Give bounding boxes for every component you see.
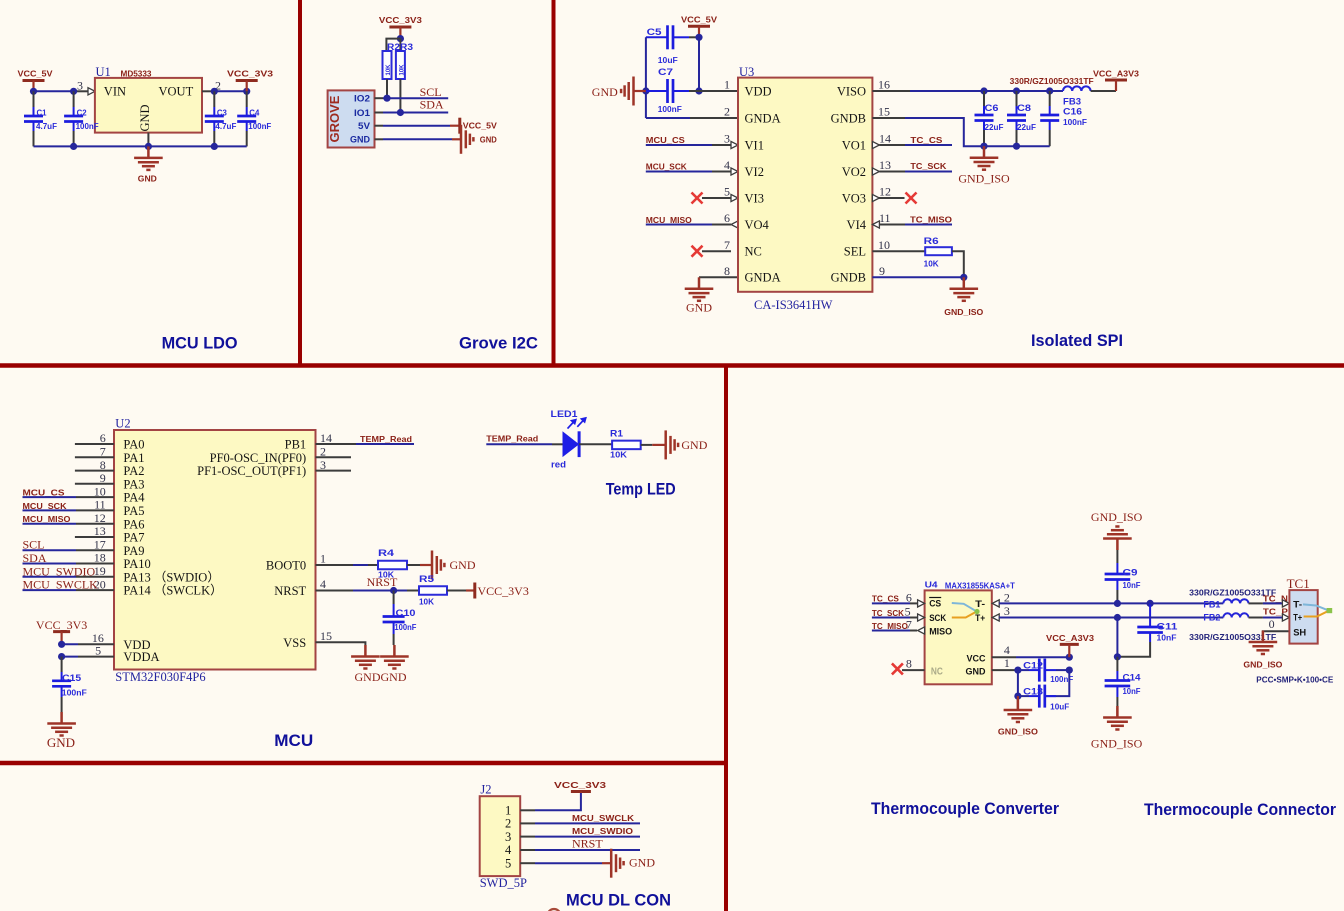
svg-text:MCU DL CON: MCU DL CON	[566, 892, 671, 910]
svg-text:100nF: 100nF	[394, 623, 416, 632]
svg-text:Thermocouple Converter: Thermocouple Converter	[871, 800, 1060, 818]
junction	[1046, 87, 1053, 94]
wire stub	[316, 456, 352, 458]
svg-text:GNDB: GNDB	[831, 111, 866, 125]
capacitor C10	[383, 591, 417, 646]
wire pin1 to VCC_3V3	[520, 809, 535, 811]
svg-text:10K: 10K	[398, 64, 405, 75]
svg-text:10uF: 10uF	[658, 56, 678, 65]
junction	[390, 587, 397, 594]
svg-text:GNDB: GNDB	[831, 271, 866, 285]
svg-text:TC_CS: TC_CS	[872, 595, 900, 604]
svg-text:PF1-OSC_OUT(PF1): PF1-OSC_OUT(PF1)	[197, 464, 306, 478]
svg-text:VDDA: VDDA	[123, 650, 159, 664]
svg-text:5: 5	[724, 185, 730, 199]
pin 3 arrow	[88, 88, 95, 95]
wire T+ to FB2	[1117, 617, 1223, 619]
wire VO2 pin 13 TC_SCK	[872, 162, 952, 175]
svg-text:C16: C16	[1063, 107, 1082, 118]
capacitor C2	[64, 91, 99, 146]
svg-text:IO2: IO2	[354, 94, 370, 105]
ferrite bead FB1	[1223, 599, 1263, 603]
pin 2 arrow T-	[992, 600, 1150, 607]
svg-text:VI1: VI1	[745, 138, 764, 152]
junction	[1014, 693, 1021, 700]
svg-text:FB1: FB1	[1203, 600, 1221, 611]
wire R3 to IO1	[399, 79, 401, 113]
wire	[23, 563, 77, 565]
svg-text:GND_ISO: GND_ISO	[1091, 510, 1143, 524]
wire R6 to GND_ISO	[952, 251, 964, 277]
svg-text:10K: 10K	[610, 451, 627, 460]
svg-text:STM32F030F4P6: STM32F030F4P6	[115, 670, 205, 684]
wire LED to R1	[579, 443, 612, 445]
svg-text:7: 7	[724, 238, 730, 252]
ground GND_ISO above C9	[1091, 510, 1143, 563]
net label TC_P	[1263, 607, 1290, 621]
svg-text:VCC_5V: VCC_5V	[463, 121, 498, 130]
wire IO2 to SCL	[375, 97, 384, 99]
svg-text:9: 9	[879, 264, 885, 278]
svg-text:MCU_SCK: MCU_SCK	[646, 163, 687, 172]
svg-text:LED1: LED1	[551, 409, 579, 420]
ferrite bead FB3	[1063, 86, 1116, 91]
svg-text:13: 13	[879, 158, 891, 172]
capacitor C13	[1018, 685, 1069, 712]
junction	[1066, 654, 1073, 661]
svg-text:100nF: 100nF	[76, 122, 99, 131]
svg-text:PA10: PA10	[123, 557, 150, 571]
ground GND below C15	[47, 712, 76, 750]
junction	[211, 88, 218, 95]
svg-text:100nF: 100nF	[1063, 118, 1087, 127]
svg-text:TEMP_Read: TEMP_Read	[360, 435, 412, 444]
wire pin5 GND	[520, 862, 535, 864]
svg-text:PA4: PA4	[123, 491, 145, 505]
capacitor C16	[1040, 91, 1087, 146]
section divider horizontal below top sections	[0, 363, 1344, 368]
capacitor C3	[205, 91, 237, 146]
svg-text:GND_ISO: GND_ISO	[998, 727, 1038, 736]
svg-text:C1: C1	[37, 109, 48, 118]
svg-text:10: 10	[878, 238, 890, 252]
svg-text:IO1: IO1	[354, 108, 371, 119]
svg-text:MAX31855KASA+T: MAX31855KASA+T	[945, 581, 1015, 590]
junction	[642, 87, 649, 94]
svg-text:MD5333: MD5333	[121, 69, 153, 78]
wire GNDB pin 9	[872, 276, 963, 278]
junction	[397, 35, 404, 42]
regulator U1	[95, 78, 202, 133]
svg-text:15: 15	[320, 629, 332, 643]
svg-text:PCC•SMP•K•100•CE: PCC•SMP•K•100•CE	[1256, 675, 1334, 684]
microcontroller U2	[114, 430, 316, 670]
capacitor C12	[1018, 659, 1073, 685]
svg-text:TC_MISO: TC_MISO	[872, 622, 908, 631]
capacitor C8	[1007, 91, 1036, 146]
wire GNDB pin 15 to ground rail	[872, 117, 905, 119]
svg-text:GNDA: GNDA	[745, 111, 781, 125]
junction	[1013, 87, 1020, 94]
connector TC1	[1289, 590, 1317, 644]
section divider horizontal between MCU and MCU DL CON	[0, 761, 726, 766]
wire NRST to R5	[316, 590, 354, 592]
svg-text:PA7: PA7	[123, 531, 144, 545]
wire pin3 MCU_SWDIO	[520, 836, 535, 838]
svg-text:TC1: TC1	[1287, 576, 1310, 591]
ferrite bead FB2	[1223, 613, 1263, 617]
svg-text:14: 14	[879, 132, 891, 146]
wire BOOT0 to R4	[316, 564, 354, 566]
svg-text:VO3: VO3	[842, 191, 866, 205]
svg-text:15: 15	[878, 105, 890, 119]
ground GND sideways left	[592, 77, 646, 106]
svg-text:C12: C12	[1023, 660, 1043, 671]
svg-text:16: 16	[878, 78, 890, 92]
resistor R2	[383, 51, 393, 79]
svg-text:Temp LED: Temp LED	[606, 481, 676, 499]
wire T- to FB1	[1150, 602, 1223, 604]
junction	[960, 274, 967, 281]
junction	[30, 88, 37, 95]
svg-text:BOOT0: BOOT0	[266, 559, 306, 573]
wire stub	[75, 443, 114, 445]
pin 3 arrow T+	[992, 614, 1117, 621]
wire R4 to GND	[407, 564, 420, 566]
power flag VCC_5V sideways	[460, 118, 498, 134]
wire pin4 NRST	[520, 849, 535, 851]
svg-text:NC: NC	[745, 245, 762, 259]
svg-text:10nF: 10nF	[1123, 687, 1141, 696]
svg-text:PA14 （SWCLK）: PA14 （SWCLK）	[123, 584, 222, 598]
power flag VCC_5V	[681, 15, 718, 37]
svg-text:FB2: FB2	[1203, 613, 1220, 624]
svg-text:GND: GND	[47, 735, 75, 750]
junction	[1147, 600, 1154, 607]
svg-text:C7: C7	[658, 67, 673, 78]
svg-text:VDD: VDD	[745, 84, 772, 98]
svg-text:Isolated SPI: Isolated SPI	[1031, 332, 1123, 350]
ground GND_ISO below C14	[1091, 706, 1143, 751]
wire R2 to IO2	[386, 79, 388, 98]
thermocouple glyph TC1	[1303, 604, 1332, 616]
net label TC_SCK	[872, 609, 925, 621]
wire right rail down	[1045, 670, 1070, 696]
svg-text:VCC_5V: VCC_5V	[681, 15, 718, 24]
svg-text:GND_ISO: GND_ISO	[1243, 661, 1282, 670]
wire to R2	[386, 39, 400, 51]
wire stub	[75, 536, 114, 538]
svg-text:1: 1	[1004, 656, 1010, 670]
svg-text:10K: 10K	[419, 598, 434, 607]
ground GND sideways	[461, 125, 497, 154]
svg-text:0: 0	[1269, 617, 1275, 631]
power flag VCC_3V3 sideways	[475, 583, 529, 599]
svg-text:J2: J2	[480, 783, 491, 797]
svg-text:MISO: MISO	[929, 627, 952, 638]
ground GND sideways	[611, 849, 655, 878]
svg-text:4.7uF: 4.7uF	[215, 122, 236, 131]
power flag VCC_A3V3	[1093, 70, 1140, 92]
svg-text:PB1: PB1	[285, 438, 307, 452]
svg-text:VO4: VO4	[745, 218, 770, 232]
svg-text:VCC: VCC	[967, 653, 986, 664]
wire T+ down	[1116, 618, 1118, 657]
svg-text:C11: C11	[1157, 621, 1179, 632]
svg-text:8: 8	[906, 657, 912, 671]
wire ground rail	[34, 145, 247, 147]
capacitor C9	[1105, 563, 1141, 603]
no-connect X pin 12	[872, 193, 916, 204]
svg-text:VOUT: VOUT	[159, 85, 194, 99]
svg-text:C6: C6	[985, 103, 999, 114]
svg-text:GND: GND	[592, 85, 618, 99]
junction	[980, 143, 987, 150]
svg-text:10uF: 10uF	[1050, 702, 1069, 711]
net label TC_N	[1263, 594, 1290, 607]
svg-text:6: 6	[906, 590, 912, 604]
svg-text:SCK: SCK	[929, 613, 946, 624]
power flag VCC_5V	[18, 70, 54, 92]
svg-text:VCC_3V3: VCC_3V3	[554, 781, 607, 790]
svg-text:PA5: PA5	[123, 504, 144, 518]
junction	[243, 88, 250, 95]
svg-text:GND: GND	[681, 438, 707, 452]
resistor R1	[610, 429, 641, 460]
wire stub	[75, 470, 114, 472]
svg-text:22uF: 22uF	[985, 123, 1004, 132]
svg-text:VCC_3V3: VCC_3V3	[478, 584, 529, 598]
svg-text:T+: T+	[1293, 612, 1302, 623]
capacitor C1	[24, 91, 57, 146]
svg-text:GNDA: GNDA	[745, 271, 781, 285]
wire pin2 MCU_SWCLK	[520, 822, 535, 824]
svg-text:PF0-OSC_IN(PF0): PF0-OSC_IN(PF0)	[210, 451, 307, 465]
svg-text:GND_ISO: GND_ISO	[958, 172, 1010, 186]
svg-text:4: 4	[320, 577, 326, 591]
ground GND sideways	[666, 430, 708, 459]
svg-text:GND: GND	[355, 670, 381, 684]
ground GND sideways	[432, 551, 476, 580]
svg-text:VCC_3V3: VCC_3V3	[379, 16, 423, 25]
junction	[383, 95, 390, 102]
svg-text:C10: C10	[396, 608, 416, 619]
svg-text:5: 5	[95, 643, 101, 657]
svg-text:5V: 5V	[358, 121, 371, 132]
svg-text:C8: C8	[1017, 103, 1031, 114]
svg-text:10nF: 10nF	[1157, 634, 1177, 643]
resistor R5	[419, 574, 447, 607]
svg-text:GND: GND	[480, 135, 497, 144]
svg-text:VI2: VI2	[745, 165, 764, 179]
junction	[58, 641, 65, 648]
wire R5 to VCC_3V3	[447, 590, 466, 592]
ground GND	[134, 146, 163, 183]
wire	[23, 589, 77, 591]
wire left rail C5-C7	[645, 37, 647, 118]
svg-text:3: 3	[77, 79, 83, 93]
svg-text:PA6: PA6	[123, 517, 144, 531]
wire left rail down	[1017, 670, 1019, 696]
svg-text:red: red	[551, 460, 566, 471]
wire VISO pin 16	[872, 90, 910, 92]
resistor R6	[924, 236, 952, 269]
svg-text:8: 8	[724, 264, 730, 278]
svg-text:4: 4	[1004, 643, 1010, 657]
section divider vertical between Grove I2C and Isolated SPI	[552, 0, 556, 366]
svg-text:C9: C9	[1123, 568, 1138, 579]
wire VCC rail down to VDD	[698, 37, 700, 91]
pin name CS with overline	[929, 598, 941, 610]
wire	[23, 509, 77, 511]
junction	[1013, 143, 1020, 150]
net label MCU_CS	[646, 136, 738, 148]
svg-text:GND: GND	[138, 175, 157, 184]
svg-text:R4: R4	[378, 548, 395, 559]
junction	[70, 143, 77, 150]
red mark bottom edge	[548, 909, 561, 911]
svg-text:PA0: PA0	[123, 438, 144, 452]
wire VO1 pin 14 TC_CS	[872, 136, 952, 149]
wire IO1 to SDA	[375, 112, 384, 114]
ground GND_ISO below SH	[1243, 631, 1282, 670]
svg-text:VSS: VSS	[283, 636, 306, 650]
wire VOUT to VCC_3V3	[202, 90, 214, 92]
svg-text:4.7uF: 4.7uF	[36, 122, 57, 131]
wire	[23, 523, 77, 525]
svg-text:U2: U2	[115, 417, 130, 431]
svg-text:5: 5	[905, 604, 911, 618]
no-connect X pin 7	[692, 246, 732, 257]
svg-text:PA2: PA2	[123, 464, 144, 478]
wire VSS to ground	[316, 642, 366, 645]
svg-text:GND: GND	[686, 301, 712, 315]
resistor R4	[378, 548, 407, 580]
svg-text:100nF: 100nF	[248, 122, 271, 131]
svg-text:R1: R1	[610, 429, 624, 440]
capacitor C5	[646, 25, 699, 49]
capacitor C15	[52, 657, 87, 712]
svg-text:VCC_A3V3: VCC_A3V3	[1093, 70, 1140, 79]
junction	[1066, 667, 1073, 674]
svg-text:VCC_3V3: VCC_3V3	[36, 618, 87, 632]
power flag VCC_3V3	[227, 70, 274, 92]
thermocouple glyph inside U4	[952, 603, 980, 618]
svg-text:100nF: 100nF	[62, 689, 87, 698]
section divider vertical between MCU LDO and Grove I2C	[298, 0, 302, 366]
wire R1 to GND	[641, 444, 653, 446]
junction	[397, 109, 404, 116]
svg-text:10K: 10K	[924, 260, 939, 269]
wire GNDA pin 8	[699, 276, 738, 278]
wire GND row	[375, 138, 384, 140]
wire GND pin 1	[992, 669, 1018, 671]
wire VDDA	[62, 656, 78, 658]
svg-text:MCU_CS: MCU_CS	[646, 136, 686, 145]
svg-text:C15: C15	[62, 673, 82, 684]
svg-text:T+: T+	[975, 613, 985, 624]
svg-text:MCU: MCU	[274, 732, 313, 750]
wire SEL pin 10 to R6	[872, 250, 925, 252]
svg-text:NC: NC	[931, 666, 943, 677]
junction	[58, 653, 65, 660]
capacitor C11	[1137, 603, 1178, 642]
svg-text:GND_ISO: GND_ISO	[944, 308, 983, 317]
wire	[23, 549, 77, 551]
junction	[1114, 614, 1121, 621]
svg-text:MCU LDO: MCU LDO	[162, 334, 238, 352]
svg-text:100nF: 100nF	[658, 105, 682, 114]
svg-text:6: 6	[724, 211, 730, 225]
svg-text:2: 2	[1004, 590, 1010, 604]
svg-text:1: 1	[724, 78, 730, 92]
svg-text:TC_CS: TC_CS	[910, 136, 943, 145]
svg-text:10nF: 10nF	[1123, 581, 1141, 590]
svg-text:VI4: VI4	[847, 218, 867, 232]
power flag VCC_3V3	[379, 16, 423, 39]
wire VCC_5V to VIN	[34, 90, 74, 92]
svg-text:VI3: VI3	[745, 191, 764, 205]
net label MCU_MISO	[646, 216, 738, 228]
ground GND_ISO below C6	[958, 146, 1010, 185]
capacitor C6	[975, 91, 1004, 146]
svg-text:TC_SCK: TC_SCK	[910, 162, 946, 171]
ground GND_ISO below pin 9	[944, 277, 983, 317]
wire VDD pin 1	[699, 90, 738, 92]
svg-text:VO2: VO2	[842, 165, 866, 179]
wire 5V to VCC_5V	[375, 125, 384, 127]
svg-text:C14: C14	[1123, 672, 1142, 683]
svg-text:T-: T-	[975, 599, 985, 610]
wire	[23, 496, 77, 498]
svg-text:5: 5	[505, 856, 511, 870]
connector J2	[480, 796, 521, 876]
svg-text:GND: GND	[381, 670, 407, 684]
svg-text:R3: R3	[400, 42, 413, 53]
svg-text:U4: U4	[925, 581, 939, 590]
resistor R3	[396, 39, 406, 79]
wire PB1 TEMP_Read	[316, 443, 357, 445]
svg-text:2: 2	[505, 817, 511, 831]
svg-text:PA13 （SWDIO）: PA13 （SWDIO）	[123, 570, 219, 584]
svg-text:MCU_SWDIO: MCU_SWDIO	[572, 827, 633, 836]
net label TC_CS	[872, 595, 925, 607]
svg-text:TC_MISO: TC_MISO	[910, 215, 952, 224]
svg-text:7: 7	[906, 617, 912, 631]
svg-text:CA-IS3641HW: CA-IS3641HW	[754, 298, 833, 312]
junction	[211, 143, 218, 150]
svg-text:MCU_SWCLK: MCU_SWCLK	[572, 814, 634, 823]
svg-text:TEMP_Read: TEMP_Read	[486, 434, 538, 443]
wire stub	[75, 456, 114, 458]
wire VI4 pin 11 TC_MISO	[872, 215, 952, 228]
svg-text:NRST: NRST	[367, 575, 398, 589]
wire C11 bottom to C14 top	[1117, 642, 1150, 657]
svg-text:Thermocouple Connector: Thermocouple Connector	[1144, 801, 1337, 819]
junction	[695, 34, 702, 41]
svg-text:SH: SH	[1293, 627, 1306, 638]
svg-text:VCC_5V: VCC_5V	[18, 70, 54, 79]
junction	[70, 88, 77, 95]
svg-text:R6: R6	[924, 236, 939, 247]
wire stub	[316, 470, 352, 472]
svg-text:NRST: NRST	[572, 837, 603, 851]
isolator chip U3	[738, 78, 872, 292]
section divider vertical between MCU column and Thermocouple column	[724, 366, 728, 911]
svg-text:3: 3	[724, 132, 730, 146]
svg-text:PA1: PA1	[123, 451, 144, 465]
svg-text:VO1: VO1	[842, 138, 866, 152]
